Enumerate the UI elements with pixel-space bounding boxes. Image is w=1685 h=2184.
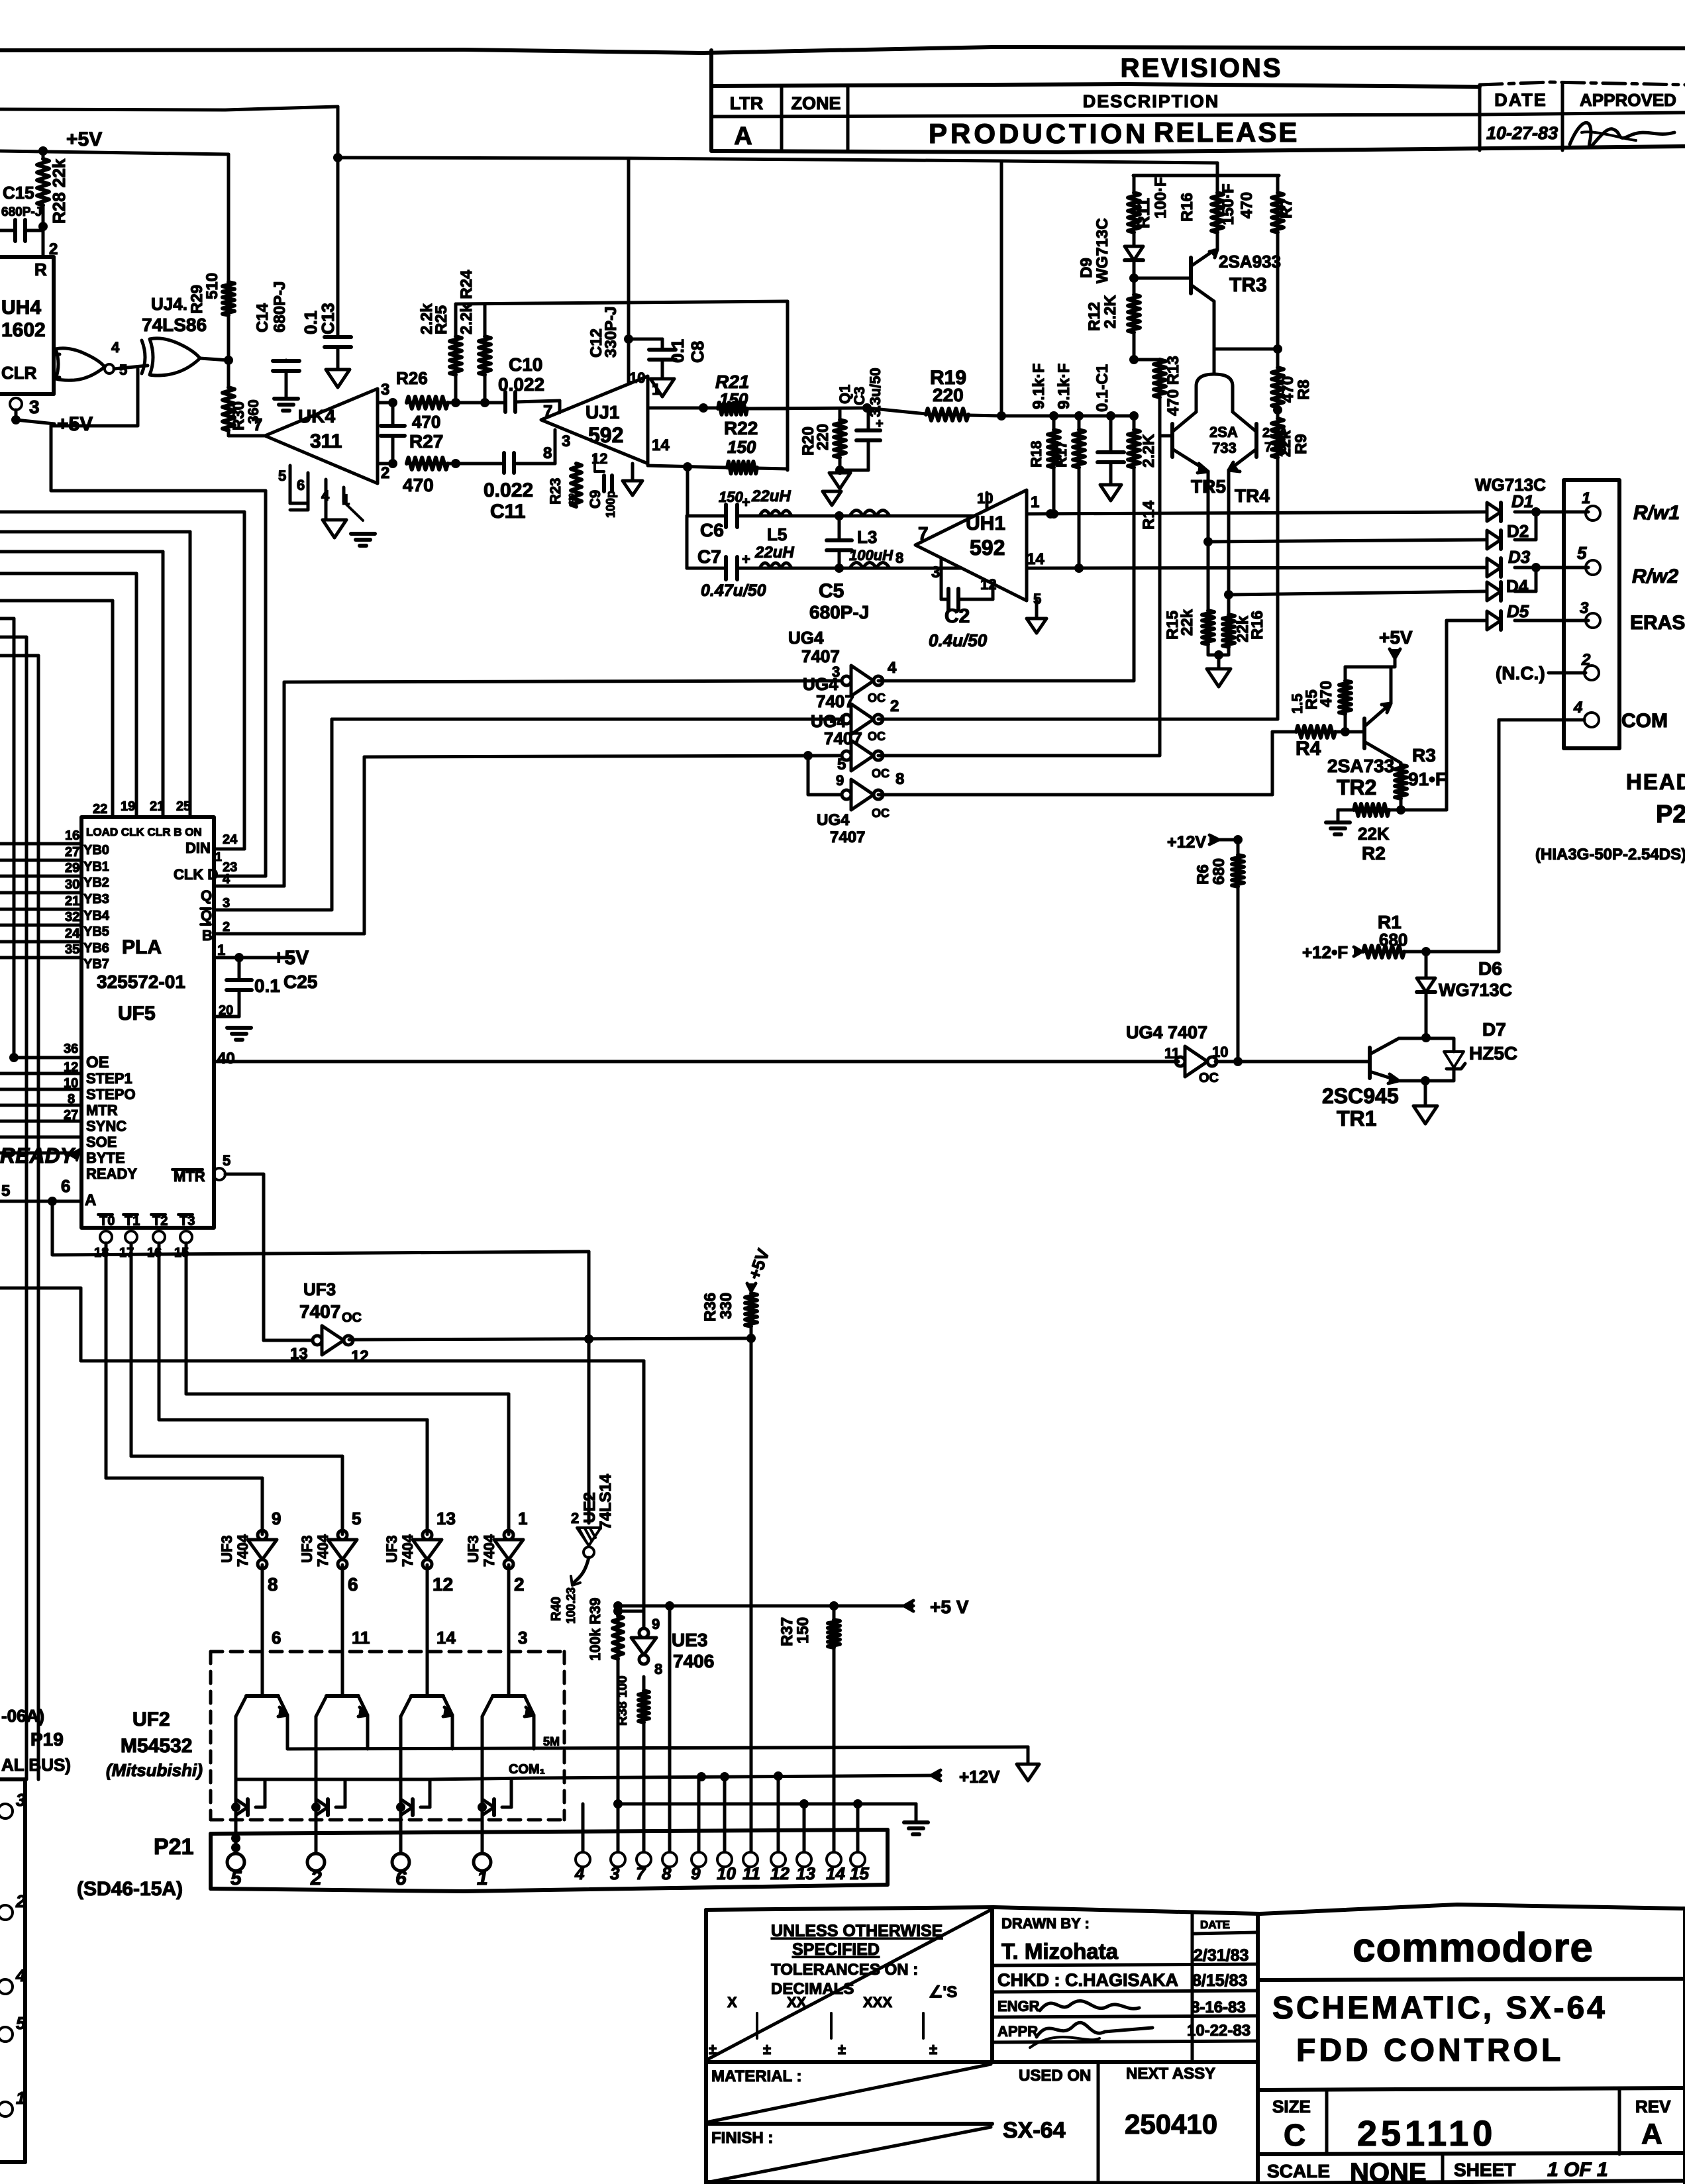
svg-text:REVISIONS: REVISIONS (1121, 54, 1283, 83)
svg-text:2: 2 (890, 697, 899, 715)
svg-text:A: A (734, 123, 752, 150)
svg-text:+5V: +5V (66, 128, 102, 150)
svg-text:CLR: CLR (1, 363, 37, 383)
svg-text:Q: Q (201, 887, 212, 904)
svg-text:HEAD: HEAD (1626, 769, 1685, 794)
svg-text:RELEASE: RELEASE (1154, 117, 1299, 148)
svg-text:2SA733: 2SA733 (1327, 756, 1394, 776)
svg-text:7404: 7404 (399, 1534, 416, 1567)
svg-text:0.4u/50: 0.4u/50 (929, 630, 988, 650)
PLA SYNC wire (0, 1120, 81, 1123)
wire PLA Qbar to buffer2 (214, 909, 332, 912)
svg-text:UF3: UF3 (383, 1535, 400, 1563)
svg-text:+12V: +12V (1167, 833, 1206, 852)
drawn-by block (1191, 1914, 1194, 2062)
resistor R15 22k (1202, 611, 1214, 644)
UK4 bottom pin stubs (289, 466, 292, 503)
wire UK4 pin3 net (378, 401, 393, 405)
svg-text:680P-J: 680P-J (1, 205, 42, 219)
junction dot R4/R5/TR2 base (1341, 727, 1350, 736)
svg-text:R/w1: R/w1 (1633, 502, 1680, 524)
svg-text:+5V: +5V (1379, 627, 1413, 648)
svg-text:27: 27 (65, 845, 79, 860)
svg-text:D6: D6 (1478, 958, 1502, 979)
svg-text:+12•F: +12•F (1302, 942, 1348, 962)
svg-text:470: 470 (403, 475, 434, 495)
UF2 emitter bus wire (287, 1747, 1028, 1749)
svg-text:TR3: TR3 (1229, 274, 1267, 296)
svg-text:C2: C2 (945, 605, 970, 627)
svg-text:FINISH :: FINISH : (711, 2129, 773, 2147)
transistor TR4 2SA733 (1254, 424, 1258, 457)
svg-text:TR5: TR5 (1191, 476, 1226, 497)
ground arrow small above C5 (823, 491, 841, 505)
svg-text:1: 1 (1582, 489, 1590, 507)
svg-text:680: 680 (1210, 858, 1228, 885)
wire TR2 emitter loop (1345, 666, 1395, 669)
svg-text:OC: OC (342, 1311, 362, 1325)
svg-text:C25: C25 (283, 971, 317, 992)
svg-text:0.1-C1: 0.1-C1 (1094, 364, 1111, 412)
connector P20 box (1564, 480, 1619, 748)
feedback wire over UJ1 (456, 301, 788, 304)
junction R39 (613, 1607, 623, 1616)
svg-text:7407: 7407 (299, 1301, 340, 1322)
svg-text:6: 6 (297, 477, 305, 493)
svg-text:TR2: TR2 (1337, 775, 1376, 799)
ground arrow right of bus (1027, 1747, 1030, 1763)
svg-text:2SC945: 2SC945 (1322, 1084, 1399, 1108)
UH4 gate input stubs (54, 353, 60, 356)
svg-text:7407: 7407 (830, 828, 865, 846)
resistor R19 220 (867, 408, 926, 414)
svg-text:3: 3 (518, 1628, 527, 1648)
svg-text:14: 14 (436, 1628, 456, 1648)
capacitor C9 100p (593, 457, 596, 472)
svg-text:R16: R16 (1178, 193, 1196, 222)
diode D9 WG713C (1125, 246, 1143, 260)
svg-text:XXX: XXX (863, 1994, 892, 2010)
buffer UF3 7404 #2 (328, 1540, 357, 1560)
svg-text:T1: T1 (125, 1214, 140, 1228)
svg-text:330: 330 (568, 493, 576, 505)
svg-text:NONE: NONE (1350, 2158, 1427, 2184)
svg-text:3: 3 (610, 1863, 620, 1883)
svg-text:±: ± (763, 2041, 771, 2058)
tolerance diagonal (706, 1910, 991, 2060)
ground at R20 (829, 473, 850, 489)
left connector pins (0, 1804, 13, 1818)
svg-text:-06A): -06A) (1, 1706, 44, 1726)
junction dot D9/R12 (1129, 273, 1139, 283)
svg-text:74LS14: 74LS14 (597, 1473, 615, 1530)
svg-text:UG4: UG4 (788, 628, 824, 648)
svg-text:32: 32 (65, 910, 79, 924)
svg-text:29: 29 (65, 861, 79, 875)
svg-text:1.5: 1.5 (1289, 693, 1305, 714)
svg-text:10-27-83: 10-27-83 (1486, 123, 1558, 143)
svg-text:100k R39: 100k R39 (587, 1598, 603, 1661)
PLA BYTE READY wire (0, 1152, 81, 1155)
diode UF2 #2 (311, 1803, 321, 1812)
resistor R14 2.2k (1133, 416, 1136, 430)
capacitor C25 0.1 (238, 958, 241, 980)
svg-text:COM: COM (1621, 710, 1668, 732)
capacitor C11 0.022 (502, 453, 506, 473)
svg-text:9.1k·F: 9.1k·F (1030, 364, 1048, 409)
inductor L5 bottom (760, 563, 791, 568)
resistor R25 2.2k (450, 336, 462, 375)
IC UH4 1602 (partial) (0, 255, 54, 259)
svg-text:1: 1 (477, 1867, 488, 1889)
wire 7407 output to R36 (349, 1338, 751, 1340)
sheet top border (0, 47, 1685, 53)
junction dot buffer output/R6 (1233, 1057, 1243, 1066)
svg-text:R27: R27 (409, 431, 443, 452)
svg-text:YB0: YB0 (83, 843, 109, 858)
svg-text:100·F: 100·F (1152, 177, 1170, 219)
svg-text:PLA: PLA (122, 936, 162, 958)
svg-text:0.1: 0.1 (254, 975, 280, 996)
junction dot R2/R3 (1396, 805, 1405, 815)
svg-text:commodore: commodore (1353, 1925, 1594, 1971)
svg-text:C5: C5 (819, 580, 844, 602)
svg-text:2: 2 (310, 1867, 322, 1889)
svg-text:YB4: YB4 (83, 909, 110, 923)
svg-text:4: 4 (111, 339, 120, 356)
svg-text:24: 24 (223, 832, 238, 847)
svg-text:10: 10 (629, 370, 645, 386)
svg-text:2SA: 2SA (1209, 424, 1238, 440)
svg-text:+: + (742, 494, 750, 511)
svg-text:470: 470 (1238, 192, 1256, 219)
svg-text:CHKD : C.HAGISAKA: CHKD : C.HAGISAKA (997, 1970, 1178, 1990)
wire UJ1 pin14 output (648, 466, 727, 468)
resistor R27 470 (407, 458, 448, 470)
svg-text:UF3: UF3 (299, 1535, 315, 1563)
svg-text:M54532: M54532 (121, 1735, 192, 1757)
svg-text:MTR: MTR (86, 1102, 118, 1118)
resistor R11 100-F (1133, 175, 1136, 193)
resistor R8 470 (1272, 368, 1284, 407)
svg-text:UK4: UK4 (298, 406, 335, 426)
svg-text:L3: L3 (857, 527, 877, 547)
svg-text:R17: R17 (1053, 441, 1070, 468)
wire T0 to UF3 buffer a (105, 1243, 108, 1478)
svg-text:1: 1 (217, 942, 225, 958)
svg-text:35: 35 (65, 942, 79, 957)
svg-text:4: 4 (321, 487, 330, 504)
ground at C13 (326, 370, 350, 387)
resistor R18 9.1k-F (1052, 416, 1056, 430)
resistor R7 470 (1276, 175, 1280, 193)
svg-text:UG4: UG4 (817, 811, 850, 829)
svg-text:8: 8 (654, 1661, 662, 1677)
transistor TR3 2SA933 (1189, 258, 1193, 293)
svg-text:TR1: TR1 (1337, 1107, 1376, 1130)
approved signature (1570, 123, 1674, 147)
svg-text:YB1: YB1 (83, 860, 109, 874)
svg-text:R28 22k: R28 22k (49, 158, 69, 224)
svg-text:±: ± (838, 2041, 846, 2058)
svg-text:150: 150 (727, 437, 756, 457)
svg-text:P21: P21 (154, 1834, 194, 1860)
svg-text:12: 12 (770, 1863, 790, 1883)
wire UK4 pin2 net (378, 462, 393, 466)
transistor UF2 #1 (246, 1694, 278, 1698)
svg-text:8: 8 (268, 1574, 278, 1595)
svg-text:5: 5 (1, 1182, 10, 1200)
svg-text:R6: R6 (1194, 864, 1212, 885)
svg-text:14: 14 (652, 436, 670, 454)
capacitor C3 3.3u/50 (867, 408, 870, 430)
svg-text:12: 12 (351, 1348, 369, 1365)
wire R6 column (1237, 840, 1240, 855)
capacitor C12 330P-J (381, 424, 405, 428)
svg-text:+5 V: +5 V (930, 1597, 969, 1617)
capacitor C6 0.47u (polarized) (724, 505, 728, 527)
svg-text:4: 4 (1573, 699, 1582, 717)
svg-text:11: 11 (352, 1628, 370, 1648)
resistor R23 330 (571, 464, 582, 507)
filter top wire (687, 515, 726, 518)
wire buffer1 output riser (1133, 468, 1136, 681)
UH4 pin3 circle (10, 398, 22, 410)
svg-text:680: 680 (1379, 930, 1407, 950)
buffer UF3 7404 #1 (248, 1540, 277, 1560)
svg-text:10-22-83: 10-22-83 (1187, 2022, 1251, 2040)
svg-text:3: 3 (381, 381, 389, 399)
svg-text:YB5: YB5 (83, 924, 109, 939)
svg-text:(N.C.): (N.C.) (1496, 663, 1545, 683)
left vertical bus wires (0, 617, 14, 620)
wire R13/TR5-base column (1158, 397, 1162, 756)
svg-text:FDD CONTROL: FDD CONTROL (1296, 2033, 1564, 2068)
wire MTR to UF3 7407 (262, 1174, 266, 1340)
wire UK4 pin7 output (229, 434, 265, 438)
svg-text:8: 8 (895, 550, 903, 566)
svg-text:WG713C: WG713C (1094, 218, 1111, 283)
wire gate2 output to R29/R30 node (200, 358, 229, 360)
resistor R5 470 (1339, 681, 1351, 714)
svg-text:L5: L5 (767, 524, 787, 544)
wire head line R/W1 (D1) (1027, 512, 1487, 514)
svg-text:3: 3 (223, 896, 230, 911)
svg-text:2: 2 (514, 1574, 525, 1595)
PLA MTR wire (0, 1104, 81, 1107)
svg-text:R22: R22 (724, 418, 758, 438)
PLA STEP1 wire (0, 1072, 81, 1075)
svg-text:22uH: 22uH (754, 544, 794, 562)
svg-text:C13: C13 (318, 303, 338, 334)
capacitor C7 0.47u (724, 557, 728, 579)
scale / sheet row (1441, 2154, 1445, 2184)
svg-text:SYNC: SYNC (86, 1118, 127, 1134)
+5V rail bottom (618, 1605, 913, 1608)
svg-text:5: 5 (16, 2013, 26, 2033)
svg-text:2.2k R24: 2.2k R24 (458, 270, 476, 334)
UF2 COM bus wire +12V (236, 1778, 430, 1781)
wire D5 anode from R3 (1447, 619, 1487, 622)
svg-text:UF3: UF3 (465, 1535, 482, 1563)
wire R22 node down to filter (686, 467, 689, 516)
svg-text:OC: OC (872, 767, 890, 780)
svg-text:(HIA3G-50P-2.54DS): (HIA3G-50P-2.54DS) (1535, 846, 1685, 864)
resistor R26 470 (407, 397, 448, 409)
wire R21 node to R19 (747, 408, 867, 409)
svg-text:9: 9 (272, 1509, 281, 1528)
svg-text:OC: OC (868, 691, 886, 705)
svg-text:7: 7 (543, 401, 552, 421)
gate UH4 output (OR) (56, 348, 105, 380)
transistor UF2 #3 (411, 1694, 443, 1698)
svg-text:1602: 1602 (1, 319, 46, 341)
svg-text:0.47u/50: 0.47u/50 (701, 581, 766, 600)
svg-text:UH4: UH4 (1, 297, 41, 319)
svg-text:∠'S: ∠'S (929, 1983, 957, 2001)
capacitor C8 0.1 (629, 338, 662, 341)
svg-text:T0: T0 (99, 1214, 115, 1228)
wire R36 column down to P21 (750, 1338, 753, 1852)
svg-text:UF5: UF5 (118, 1003, 156, 1024)
svg-text:311: 311 (310, 430, 342, 452)
P21 right pins (576, 1852, 590, 1867)
svg-text:SHEET: SHEET (1454, 2159, 1515, 2180)
wire 7404 #4 output to UF2 (507, 1565, 511, 1696)
svg-text:4: 4 (888, 659, 897, 677)
resistor R28 22k (42, 151, 45, 159)
svg-text:5M: 5M (543, 1735, 560, 1748)
svg-text:5: 5 (230, 1867, 242, 1889)
svg-text:21: 21 (65, 894, 79, 909)
transistor pair TR5 TR4 tent (1196, 374, 1233, 397)
svg-text:36: 36 (64, 1042, 78, 1056)
tolerance box (990, 1909, 994, 2062)
svg-text:7406: 7406 (673, 1651, 714, 1671)
svg-text:APPROVED: APPROVED (1580, 90, 1676, 110)
svg-text:510: 510 (203, 273, 221, 299)
junction dot C15/R28 (38, 222, 48, 231)
left connector box (0, 1777, 25, 1781)
wire COM to R1 node (1499, 719, 1584, 722)
wire D4 line (1224, 590, 1233, 599)
svg-text:470 R13: 470 R13 (1164, 356, 1182, 416)
resistor R29 510 (223, 282, 234, 315)
wire 7404 #2 output to UF2 (341, 1565, 344, 1696)
filter bottom wire (687, 567, 726, 570)
svg-text:OC: OC (872, 807, 890, 820)
svg-text:7: 7 (253, 415, 262, 434)
svg-text:2SA933: 2SA933 (1219, 252, 1281, 272)
svg-text:19: 19 (121, 799, 135, 814)
resistor R21 150 (718, 403, 747, 415)
svg-text:A: A (1641, 2118, 1662, 2150)
resistor R17 9.1k-F (1078, 416, 1081, 430)
comparator UK4 311 (265, 389, 378, 483)
svg-text:BYTE: BYTE (86, 1150, 125, 1166)
svg-text:10: 10 (717, 1863, 736, 1883)
op-amp UJ1 592 (541, 376, 648, 464)
svg-text:WG713C: WG713C (1475, 475, 1546, 495)
svg-text:C9: C9 (587, 490, 603, 509)
svg-text:C3: C3 (851, 387, 868, 405)
capacitor C5 680P-J (835, 511, 844, 521)
IC PLA UF5 325572-01 box (81, 817, 214, 1228)
transistor UF2 #2 (327, 1694, 358, 1698)
svg-text:R38 100: R38 100 (615, 1675, 630, 1726)
connector P21 box (211, 1830, 888, 1834)
svg-text:8-16-83: 8-16-83 (1191, 1999, 1246, 2016)
buffer UF3 7404 #4 (494, 1540, 523, 1560)
svg-text:10: 10 (977, 490, 993, 507)
svg-text:R23: R23 (547, 478, 564, 505)
svg-text:0.1: 0.1 (668, 339, 688, 363)
svg-text:B: B (202, 927, 213, 944)
svg-text:C8: C8 (688, 341, 707, 363)
wire UF2 #1 to P21 pin (234, 1807, 238, 1852)
svg-text:AL BUS): AL BUS) (1, 1755, 71, 1775)
svg-text:7407: 7407 (816, 691, 854, 711)
svg-text:680P-J: 680P-J (809, 602, 869, 622)
svg-text:UNLESS OTHERWISE: UNLESS OTHERWISE (771, 1922, 943, 1940)
revisions table frame (709, 50, 713, 150)
PLA top pin wires (111, 601, 115, 817)
svg-text:C11: C11 (490, 501, 525, 522)
svg-text:14: 14 (1027, 550, 1045, 568)
svg-text:SCALE: SCALE (1267, 2161, 1330, 2181)
svg-text:470: 470 (1279, 376, 1297, 403)
svg-text:5: 5 (278, 468, 286, 484)
svg-text:0.022: 0.022 (484, 479, 533, 501)
svg-text:R: R (34, 260, 47, 279)
svg-text:R2: R2 (1362, 843, 1386, 864)
UH1 pin5 ground (1035, 601, 1039, 617)
svg-text:REV: REV (1635, 2097, 1671, 2116)
wire T1 to UF3 buffer b (130, 1243, 133, 1456)
junction dot R36/7407 (746, 1334, 756, 1343)
wire TR5 base (1160, 434, 1172, 438)
resistor R2 22k (1354, 804, 1389, 816)
svg-text:UJ4.: UJ4. (151, 294, 187, 314)
diode UF2 #4 (478, 1803, 487, 1812)
svg-text:R4: R4 (1296, 738, 1321, 760)
inductor L3 bottom (850, 563, 890, 569)
wire A net to UE2 (51, 1201, 54, 1255)
wire +5V rail right section (338, 158, 1217, 163)
svg-text:470: 470 (412, 412, 440, 432)
svg-text:OC: OC (1199, 1071, 1219, 1085)
svg-text:PRODUCTION: PRODUCTION (929, 118, 1149, 149)
svg-text:P19: P19 (30, 1729, 64, 1750)
svg-text:1: 1 (16, 2088, 25, 2108)
svg-text:5: 5 (1577, 543, 1587, 563)
svg-text:22K: 22K (1358, 824, 1390, 844)
svg-text:8: 8 (895, 770, 904, 788)
svg-text:91•F: 91•F (1408, 769, 1447, 789)
svg-text:SOE: SOE (86, 1134, 117, 1150)
svg-text:UE2: UE2 (581, 1492, 599, 1523)
svg-text:OE: OE (86, 1054, 109, 1071)
resistor R39 100k (617, 1614, 620, 1618)
svg-text:9: 9 (691, 1863, 701, 1883)
diode UF2 #1 (231, 1803, 240, 1812)
svg-text:8/15/83: 8/15/83 (1192, 1971, 1247, 1990)
svg-text:R37: R37 (778, 1617, 796, 1646)
resistor R20 220 (839, 409, 842, 420)
svg-text:9: 9 (652, 1616, 660, 1632)
svg-text:COM₁: COM₁ (509, 1762, 545, 1777)
svg-text:R40: R40 (549, 1597, 564, 1621)
